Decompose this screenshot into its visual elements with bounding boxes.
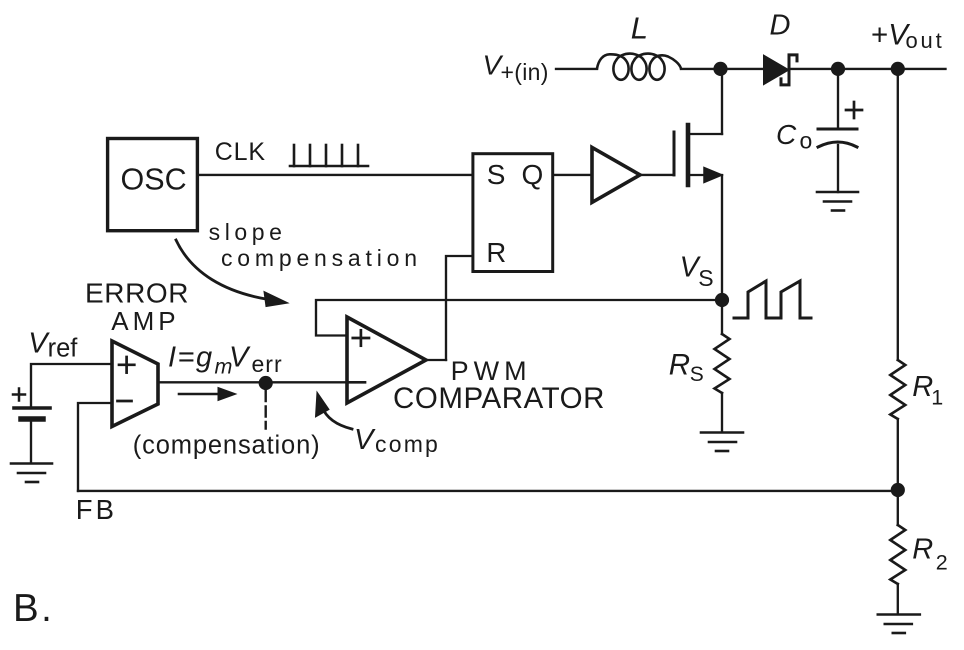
svg-text:err: err	[252, 351, 283, 377]
resistor RS	[715, 334, 730, 393]
label R2	[912, 533, 948, 574]
svg-text:o: o	[800, 128, 813, 154]
ground (RS)	[701, 433, 743, 452]
label +Vout	[871, 19, 944, 54]
capacitor Co polarity plus sign	[846, 102, 862, 118]
svg-text:V: V	[354, 424, 376, 456]
pin S	[487, 159, 506, 190]
wire FB net	[78, 490, 898, 492]
svg-text:slope: slope	[209, 219, 287, 245]
label R1	[912, 371, 943, 410]
svg-text:L: L	[631, 11, 648, 46]
op-amp PWM comparator triangle	[347, 317, 426, 403]
svg-text:V: V	[229, 342, 251, 374]
svg-text:R: R	[486, 237, 506, 268]
label D	[770, 10, 791, 42]
svg-text:R: R	[912, 371, 933, 403]
node switch junction	[713, 62, 727, 76]
node FB junction	[891, 483, 905, 497]
arrow Vcomp	[322, 407, 352, 429]
svg-text:OSC: OSC	[121, 163, 187, 197]
wire error amp output to comparator minus input	[158, 381, 347, 383]
label (compensation)	[133, 431, 321, 459]
wire R1 to FB node	[897, 419, 899, 490]
label Co	[776, 119, 812, 154]
label OSC	[121, 163, 187, 197]
wire capacitor to ground	[837, 145, 839, 192]
svg-text:R: R	[912, 533, 933, 565]
error amp minus input marker	[118, 400, 132, 403]
buffer driver triangle	[592, 147, 640, 202]
svg-text:CLK: CLK	[215, 138, 266, 166]
wire Vref to error amp plus input	[31, 364, 112, 406]
transistor MOSFET drain lead	[690, 133, 722, 135]
label CLK	[215, 138, 266, 166]
svg-text:R: R	[669, 348, 690, 381]
op-amp error amp (gm) trapezoid	[112, 341, 158, 427]
pin R	[486, 237, 506, 268]
battery Vref negative plate	[21, 416, 43, 422]
wire FB node to R2	[897, 490, 899, 525]
label RS	[669, 348, 704, 386]
svg-text:ref: ref	[48, 335, 79, 363]
label Vref	[28, 328, 78, 363]
node Vout junction	[891, 62, 905, 76]
wire comparator output	[426, 359, 446, 361]
svg-text:(compensation): (compensation)	[133, 431, 321, 459]
capacitor Co top plate	[818, 128, 857, 131]
latch S-R flip-flop box	[473, 154, 553, 272]
node VS	[715, 293, 729, 307]
diode D (Schottky) anode triangle	[764, 56, 788, 84]
svg-text:compensation: compensation	[221, 245, 422, 271]
wire RS to ground	[721, 393, 723, 432]
wire buffer to gate	[640, 174, 674, 176]
svg-text:S: S	[487, 159, 506, 190]
wire source down to VS node	[721, 175, 723, 300]
wire comparator output to R input	[446, 256, 472, 360]
wire VS node to resistor RS	[721, 300, 723, 334]
transistor MOSFET source lead	[690, 174, 706, 176]
comparator minus input marker	[349, 381, 365, 384]
node compensation junction	[259, 376, 273, 390]
waveform sawtooth symbol	[734, 281, 811, 318]
label PWM COMPARATOR	[393, 356, 605, 415]
label FB	[76, 494, 117, 525]
svg-text:+V: +V	[871, 19, 910, 52]
wire dashed compensation stub	[265, 391, 267, 429]
transistor MOSFET channel bar	[686, 125, 691, 185]
wire diode cathode to output	[790, 68, 946, 70]
battery polarity plus sign	[13, 389, 25, 401]
wire VS to comparator plus input	[316, 300, 722, 336]
svg-text:2: 2	[936, 551, 948, 575]
wire R2 to ground	[897, 584, 899, 614]
wire output rail down to R1	[897, 69, 899, 360]
inductor L	[597, 54, 681, 80]
svg-text:comp: comp	[375, 431, 440, 457]
transistor MOSFET gate plate	[673, 132, 676, 175]
svg-text:C: C	[776, 119, 797, 150]
label slope compensation	[209, 219, 422, 271]
svg-text:B.: B.	[13, 587, 54, 630]
wire Q output to buffer	[554, 174, 592, 176]
wire inductor to diode anode	[681, 68, 764, 70]
label VS	[680, 252, 714, 291]
wire Vin to inductor	[556, 68, 597, 70]
node V+(in) label	[483, 50, 549, 86]
battery Vref positive plate	[14, 406, 50, 410]
diode D cathode bar	[781, 55, 797, 85]
svg-text:ERROR: ERROR	[85, 278, 189, 309]
svg-text:FB: FB	[76, 494, 117, 525]
svg-text:S: S	[698, 265, 713, 291]
svg-text:AMP: AMP	[111, 306, 179, 336]
error amp plus input marker	[119, 357, 134, 373]
ground (Co)	[817, 192, 858, 211]
wire battery to ground	[30, 421, 32, 463]
svg-text:COMPARATOR: COMPARATOR	[393, 382, 605, 415]
label I=gmVerr	[168, 342, 283, 379]
wire FB to error amp minus input	[78, 403, 112, 491]
capacitor Co bottom plate (polarized)	[818, 142, 857, 147]
label Vcomp	[354, 424, 440, 457]
svg-text:+(in): +(in)	[501, 59, 549, 85]
wire drain to switch node	[721, 69, 723, 134]
svg-text:S: S	[690, 363, 704, 386]
label ERROR AMP	[85, 278, 189, 337]
svg-text:1: 1	[931, 386, 943, 410]
transistor MOSFET source arrow	[704, 168, 722, 183]
comparator plus input marker	[353, 330, 369, 345]
svg-text:I=g: I=g	[168, 342, 214, 374]
wire CLK from OSC to latch S input	[200, 174, 471, 176]
pin Q	[522, 159, 544, 190]
resistor R2	[890, 525, 905, 584]
ground (R2)	[878, 615, 920, 634]
resistor R1	[890, 360, 905, 419]
clock pulse train symbol	[290, 145, 368, 166]
ground (battery)	[11, 464, 52, 483]
oscillator OSC box	[108, 139, 198, 231]
wire output node to capacitor Co	[837, 69, 839, 129]
node Co junction	[831, 62, 845, 76]
arrow current direction	[179, 393, 222, 396]
svg-text:Q: Q	[522, 159, 544, 190]
label L	[631, 11, 648, 46]
svg-text:D: D	[770, 10, 791, 42]
svg-text:out: out	[906, 28, 945, 53]
arrow slope compensation	[176, 240, 266, 299]
label B.	[13, 587, 54, 630]
